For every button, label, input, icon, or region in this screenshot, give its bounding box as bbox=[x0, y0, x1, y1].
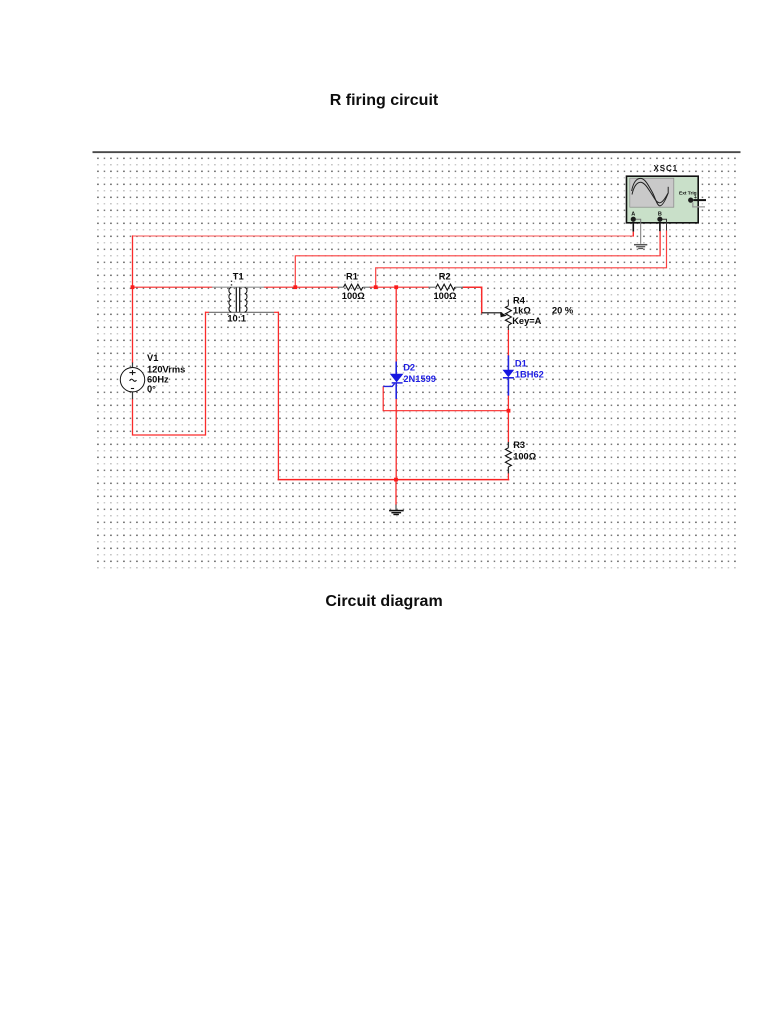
wire D2 cathode down bbox=[395, 399, 397, 480]
top pin line bbox=[212, 286, 264, 288]
svg-text:100Ω: 100Ω bbox=[513, 452, 537, 462]
svg-text:V1: V1 bbox=[147, 353, 158, 363]
ground (bottom) bbox=[389, 505, 404, 515]
potentiometer R4 bbox=[482, 300, 512, 331]
svg-text:R3: R3 bbox=[513, 440, 525, 450]
wire D1 cathode to R3 bbox=[507, 396, 509, 442]
svg-text:10:1: 10:1 bbox=[227, 313, 246, 323]
node V1-T1 top junction bbox=[131, 285, 135, 289]
oscilloscope XSC1 bbox=[627, 176, 707, 256]
wire scope B line2 bbox=[295, 232, 660, 288]
svg-text:A: A bbox=[631, 211, 635, 217]
svg-text:R2: R2 bbox=[439, 271, 451, 281]
svg-text:2N1599: 2N1599 bbox=[403, 374, 436, 384]
wire V1 bottom loop bbox=[133, 312, 206, 435]
secondary coil bbox=[245, 288, 247, 312]
wire R1 to R2 bbox=[370, 286, 428, 288]
svg-text:1BH62: 1BH62 bbox=[515, 369, 544, 379]
svg-text:D2: D2 bbox=[403, 363, 415, 373]
grid dots bbox=[94, 155, 740, 572]
wire R3 bottom to bus bbox=[507, 473, 509, 479]
AC source V1 bbox=[120, 363, 144, 400]
primary coil bbox=[229, 288, 231, 312]
svg-text:XSC1: XSC1 bbox=[654, 164, 679, 173]
diode D1 1BH62 bbox=[503, 355, 515, 395]
wire ground stub bbox=[395, 480, 397, 505]
wire V1 left vertical bbox=[132, 236, 134, 363]
svg-text:1kΩ: 1kΩ bbox=[513, 306, 531, 316]
B terminal bbox=[657, 217, 662, 222]
svg-text:T1: T1 bbox=[233, 271, 244, 281]
node D2 anode junction bbox=[394, 285, 398, 289]
canvas top border bbox=[93, 151, 741, 153]
resistor R2 bbox=[428, 284, 463, 290]
wire scope A line1 bbox=[133, 235, 634, 237]
transformer T1 bbox=[206, 281, 279, 313]
wire D2 anode bbox=[395, 287, 397, 361]
svg-text:100Ω: 100Ω bbox=[342, 291, 366, 301]
node gate-R3 junction bbox=[507, 409, 511, 413]
node ground junction bbox=[394, 478, 398, 482]
svg-text:100Ω: 100Ω bbox=[434, 291, 458, 301]
wire scope Bminus line3 bbox=[376, 231, 667, 288]
wire ground bus bottom bbox=[278, 479, 508, 481]
wire R4 bottom to D1 bbox=[507, 330, 509, 355]
Ext Trig terminal bbox=[688, 198, 693, 203]
SCR D2 2N1599 bbox=[383, 362, 403, 400]
svg-text:D1: D1 bbox=[515, 358, 527, 368]
svg-text:0°: 0° bbox=[147, 384, 156, 394]
svg-text:Key=A: Key=A bbox=[512, 316, 541, 326]
scope trace 2 bbox=[632, 182, 668, 203]
B minus hook bbox=[663, 219, 667, 230]
svg-text:20 %: 20 % bbox=[552, 306, 574, 316]
A minus hook to ground bbox=[636, 219, 641, 244]
svg-text:60Hz: 60Hz bbox=[147, 375, 169, 385]
svg-text:R firing circuit: R firing circuit bbox=[330, 92, 439, 109]
bottom pin line bbox=[206, 311, 210, 313]
wire T1 secondary bottom to ground bus bbox=[277, 312, 279, 479]
wire D2 gate to R3 top bbox=[383, 387, 508, 411]
resistor R3 bbox=[505, 442, 511, 474]
node B+ tap junction bbox=[293, 285, 297, 289]
wire R2 to R4 wiper corner bbox=[463, 287, 482, 313]
svg-text:R1: R1 bbox=[346, 271, 358, 281]
core lines bbox=[235, 287, 237, 312]
ground (scope) bbox=[634, 245, 647, 249]
R4 wiper arrow bbox=[500, 312, 507, 317]
polarity dots bbox=[231, 281, 232, 282]
svg-text:Circuit diagram: Circuit diagram bbox=[325, 593, 442, 610]
svg-text:R4: R4 bbox=[513, 296, 526, 306]
svg-text:B: B bbox=[658, 211, 662, 217]
V1 labels bbox=[147, 353, 185, 394]
junction dots bbox=[131, 285, 511, 481]
scope trace 1 bbox=[632, 178, 669, 205]
svg-text:120Vrms: 120Vrms bbox=[147, 365, 185, 375]
wire T1 to R1 bbox=[264, 286, 337, 288]
A terminal bbox=[631, 217, 636, 222]
wire main row V1 to T1 bbox=[133, 286, 212, 288]
B pin bbox=[659, 222, 661, 231]
A pin bbox=[632, 222, 634, 232]
node B- tap junction bbox=[374, 285, 378, 289]
resistor R1 bbox=[338, 284, 370, 290]
